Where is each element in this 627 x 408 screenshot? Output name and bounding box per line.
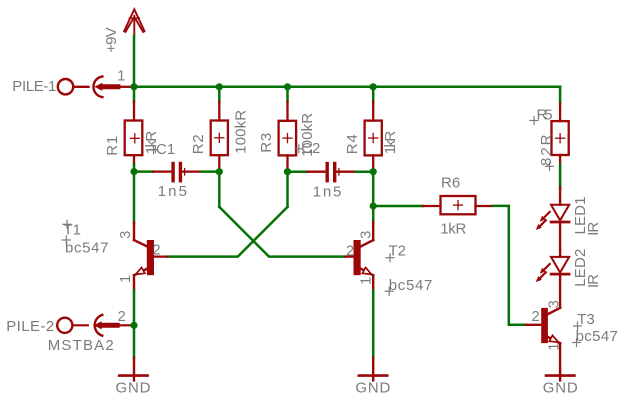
pin 2 wire of PILE-2 xyxy=(120,324,133,326)
resistor R3 xyxy=(279,102,297,169)
resistor R1 xyxy=(125,102,143,165)
origin cross bc547 T2 xyxy=(385,287,393,295)
svg-text:bc547: bc547 xyxy=(389,277,433,294)
svg-text:bc547: bc547 xyxy=(576,328,618,345)
svg-text:100kR: 100kR xyxy=(232,110,249,154)
wire C2 to node D xyxy=(356,170,373,173)
origin cross T2 xyxy=(386,254,394,262)
ground GND2 xyxy=(359,358,387,381)
wire cross diagonal C to T1 base xyxy=(168,207,288,257)
svg-text:2: 2 xyxy=(346,244,354,260)
svg-text:GND: GND xyxy=(543,379,578,396)
connector PILE-2 xyxy=(57,315,102,336)
wire node B down xyxy=(218,172,221,207)
svg-text:3: 3 xyxy=(358,231,374,239)
svg-text:1n5: 1n5 xyxy=(158,183,187,200)
svg-text:1: 1 xyxy=(358,277,374,285)
wire +9V to bus xyxy=(133,36,136,87)
node junction below R2 xyxy=(216,168,223,175)
svg-text:2: 2 xyxy=(153,243,161,259)
capacitor C2 xyxy=(308,162,357,183)
node junction PILE-2 xyxy=(130,322,137,329)
wire R5 to LED1 xyxy=(559,165,562,188)
wire bus to R1 xyxy=(133,87,136,102)
svg-text:C1: C1 xyxy=(156,141,175,158)
svg-text:R5: R5 xyxy=(537,107,553,124)
node junction below R3 xyxy=(284,168,291,175)
wire C1 to node B xyxy=(202,170,220,173)
wire T1 emitter down xyxy=(133,291,136,358)
svg-text:2: 2 xyxy=(532,309,540,325)
svg-text:R4: R4 xyxy=(344,134,361,154)
svg-text:R2: R2 xyxy=(190,134,207,154)
wire bus to R4 xyxy=(372,87,375,102)
node bus junction D xyxy=(370,83,377,90)
node bus junction B xyxy=(216,83,223,90)
wire bus to R2 xyxy=(218,87,221,102)
capacitor C1 xyxy=(153,162,202,183)
diode LED1 xyxy=(551,188,569,257)
LED2 emission arrows xyxy=(536,264,550,282)
wire C2 row left xyxy=(288,170,308,173)
svg-text:1: 1 xyxy=(117,69,125,85)
svg-text:R1: R1 xyxy=(104,136,121,156)
svg-text:82R: 82R xyxy=(538,134,555,166)
wire node D down to R6 node xyxy=(372,172,375,223)
wire R6 node to R6 xyxy=(373,205,423,208)
svg-text:3: 3 xyxy=(547,300,563,308)
resistor R2 xyxy=(211,102,228,169)
svg-text:GND: GND xyxy=(116,379,151,396)
wire bus to R3 xyxy=(286,87,289,102)
ground GND3 xyxy=(546,374,574,380)
power +9V symbol P1 xyxy=(124,9,144,36)
pin 1 wire of PILE-1 xyxy=(120,86,133,88)
origin cross C1 xyxy=(150,146,158,154)
svg-text:1n5: 1n5 xyxy=(313,183,342,200)
wire T2 emitter down xyxy=(372,291,375,358)
wire C1 row left xyxy=(134,170,153,173)
origin cross bc547 T1 xyxy=(62,236,70,244)
wire bus top rail xyxy=(133,86,560,89)
svg-text:IR: IR xyxy=(585,274,602,288)
transistor T3 bc547 xyxy=(526,308,560,374)
svg-text:R6: R6 xyxy=(441,175,460,192)
wire bus right drop xyxy=(559,87,562,104)
node junction below R4 xyxy=(370,168,377,175)
svg-text:+9V: +9V xyxy=(103,27,120,53)
svg-text:GND: GND xyxy=(355,379,390,396)
ground GND1 xyxy=(119,358,147,381)
resistor R6 xyxy=(423,196,493,214)
diode LED2 xyxy=(551,257,569,308)
node bus junction A xyxy=(130,83,137,90)
LED1 emission arrows xyxy=(536,212,550,230)
origin cross C2 xyxy=(295,145,303,153)
origin cross T1 xyxy=(63,220,71,228)
node bus junction C xyxy=(284,83,291,90)
wire R1 to T1 collector xyxy=(133,164,136,223)
resistor R5 xyxy=(552,104,569,165)
connector PILE-1 xyxy=(58,77,103,98)
svg-text:PILE-1: PILE-1 xyxy=(12,78,56,95)
svg-text:PILE-2: PILE-2 xyxy=(6,318,54,335)
origin cross bc547 T3 xyxy=(573,339,581,347)
svg-text:1kR: 1kR xyxy=(440,221,466,238)
svg-text:1: 1 xyxy=(547,343,563,351)
origin cross 82R xyxy=(546,162,554,170)
svg-text:3: 3 xyxy=(118,231,134,239)
node junction R6 branch xyxy=(370,202,377,209)
wire cross diagonal B to T2 base xyxy=(219,207,345,257)
origin cross R5 xyxy=(530,117,538,125)
wire node C down xyxy=(286,172,289,207)
svg-text:R3: R3 xyxy=(258,133,275,153)
svg-text:MSTBA2: MSTBA2 xyxy=(48,337,114,354)
svg-text:1: 1 xyxy=(118,275,134,283)
resistor R4 xyxy=(365,102,382,169)
transistor T2 bc547 xyxy=(345,222,373,290)
transistor T1 bc547 (mirrored) xyxy=(134,223,168,291)
svg-text:C2: C2 xyxy=(301,140,320,157)
node junction below R1 xyxy=(130,168,137,175)
wire R6 to T3 base xyxy=(493,206,526,325)
svg-text:2: 2 xyxy=(118,309,126,325)
svg-text:bc547: bc547 xyxy=(65,239,109,256)
svg-text:1kR: 1kR xyxy=(382,131,399,155)
origin cross T3 xyxy=(574,322,582,330)
svg-text:IR: IR xyxy=(585,222,602,236)
